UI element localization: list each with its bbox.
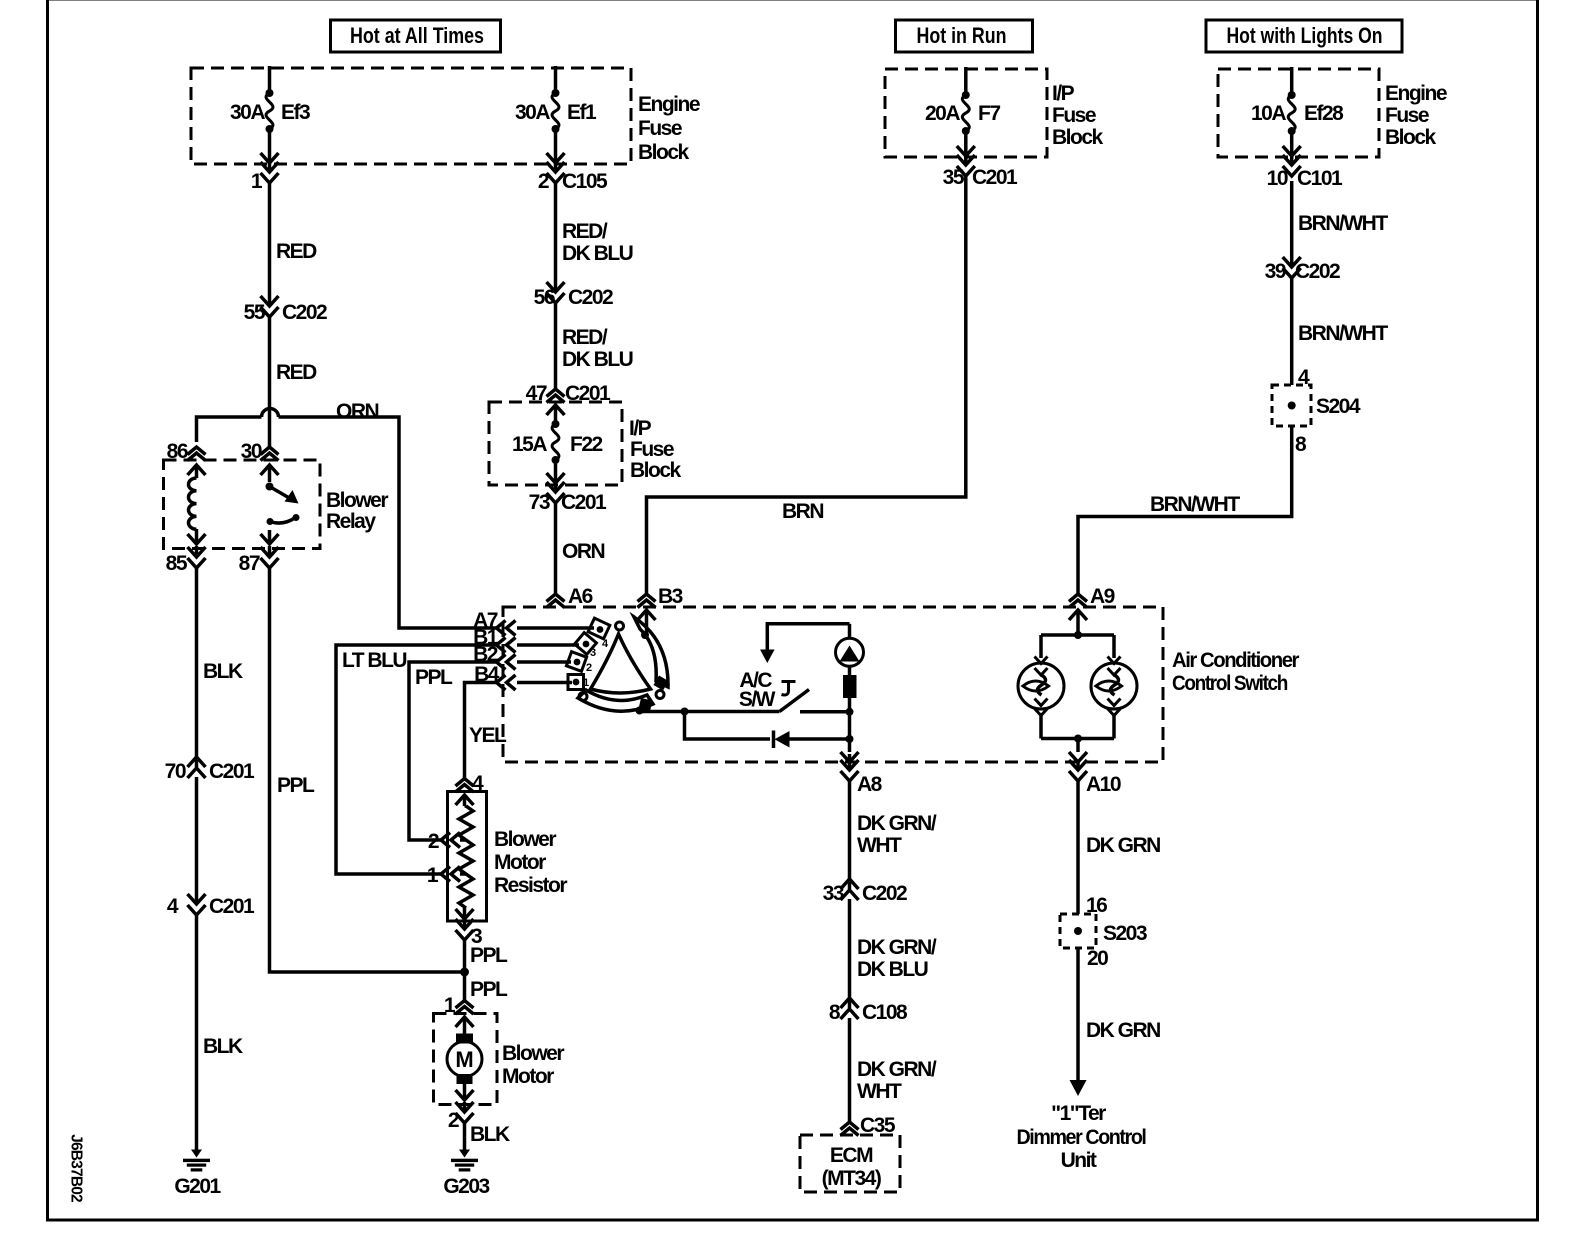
wire DK GRN/WHT (8 C108 to C35) (850, 1018, 937, 1122)
wire BLK (4 C201 to G201) (197, 913, 243, 1151)
svg-text:2: 2 (586, 662, 592, 674)
svg-text:WHT: WHT (857, 1080, 902, 1103)
svg-text:G201: G201 (174, 1175, 221, 1198)
svg-text:PPL: PPL (277, 774, 315, 797)
svg-text:55: 55 (244, 301, 266, 324)
connector 39 C202 (1265, 257, 1340, 283)
fuse Ef28 10A (1251, 67, 1344, 156)
svg-text:2: 2 (428, 830, 439, 853)
svg-text:S203: S203 (1103, 922, 1147, 945)
svg-text:F7: F7 (978, 102, 1000, 125)
svg-text:Hot at All Times: Hot at All Times (350, 23, 484, 48)
connector 73 C201 (529, 482, 607, 514)
engine fuse block (right) dashed box (1218, 69, 1447, 157)
svg-text:C105: C105 (562, 170, 608, 193)
wire DK GRN/DK BLU (33 C202 to 8 C108) (850, 899, 937, 1008)
node (PPL junction) (460, 968, 508, 1002)
wire DK GRN (A10 to S203) (1078, 779, 1160, 917)
svg-text:A10: A10 (1086, 773, 1121, 796)
wire to A8 (841, 739, 859, 762)
svg-text:B3: B3 (658, 585, 683, 608)
ground G201 (174, 1150, 221, 1199)
splice S203 (1060, 914, 1147, 970)
wire RED (55 C202 to relay) (270, 315, 318, 447)
svg-text:70: 70 (165, 760, 186, 783)
wire PPL (pin 3 to junction) (465, 938, 509, 1001)
wire PPL (87 to blower motor junction) (270, 566, 465, 972)
wire RED/DK BLU (56 C202 to 47 C201) (556, 301, 633, 389)
svg-text:C201: C201 (561, 491, 607, 514)
wire (rotary to A/C switch) (640, 708, 780, 716)
svg-text:2: 2 (538, 170, 549, 193)
svg-text:Blower: Blower (502, 1042, 564, 1065)
svg-text:RED: RED (276, 240, 317, 263)
fuse F7 20A (925, 67, 1000, 156)
illumination lamp (right) (1091, 635, 1137, 739)
svg-text:Hot with Lights On: Hot with Lights On (1227, 23, 1383, 48)
svg-text:Control Switch: Control Switch (1172, 672, 1288, 695)
svg-text:C202: C202 (282, 301, 327, 324)
connector 10 C101 (1267, 155, 1343, 190)
svg-text:BRN/WHT: BRN/WHT (1298, 212, 1388, 235)
svg-text:PPL: PPL (415, 666, 453, 689)
svg-text:Air Conditioner: Air Conditioner (1172, 649, 1299, 672)
svg-text:C201: C201 (972, 166, 1018, 189)
wire ORN (73 C201 to A6) (556, 501, 605, 594)
svg-text:30A: 30A (515, 101, 550, 124)
connector A9 (1069, 585, 1115, 608)
connector 47 C201 (526, 382, 611, 405)
svg-text:4: 4 (602, 638, 609, 650)
svg-text:C202: C202 (862, 882, 907, 905)
svg-text:Block: Block (1385, 126, 1437, 149)
motor pin 1 connector (444, 994, 474, 1017)
wire YEL (B4 to resistor pin4) (465, 683, 508, 779)
connector 35 C201 (943, 155, 1018, 189)
svg-text:DK BLU: DK BLU (857, 958, 928, 981)
svg-text:C201: C201 (209, 895, 255, 918)
illumination lamp (left) (1018, 635, 1064, 739)
svg-text:4: 4 (167, 895, 179, 918)
svg-text:A6: A6 (568, 585, 593, 608)
engine fuse block (left) dashed box (191, 68, 700, 164)
svg-text:(MT34): (MT34) (822, 1167, 881, 1190)
svg-text:Engine: Engine (638, 93, 700, 116)
svg-text:Block: Block (630, 459, 682, 482)
connector 8 C108 (829, 998, 908, 1024)
svg-text:35: 35 (943, 166, 965, 189)
svg-text:2: 2 (448, 1109, 459, 1132)
svg-text:Relay: Relay (326, 510, 376, 533)
wire BRN/WHT (C101 to 39 C202) (1292, 181, 1389, 266)
svg-text:LT BLU: LT BLU (342, 649, 406, 672)
svg-text:Block: Block (638, 141, 690, 164)
plate code J6B37B02 (68, 1134, 85, 1202)
svg-text:Unit: Unit (1061, 1149, 1097, 1172)
svg-text:87: 87 (239, 552, 260, 575)
svg-text:10A: 10A (1251, 102, 1286, 125)
relay pin 30 connector (241, 440, 279, 463)
connector B3 (638, 585, 683, 608)
svg-text:BLK: BLK (203, 660, 243, 683)
connector 33 C202 (823, 879, 907, 905)
resistor pin 3 connector (456, 919, 483, 948)
relay switch contacts (261, 465, 300, 544)
wire BRN (35 C201 to B3) (647, 174, 966, 594)
svg-text:33: 33 (823, 882, 844, 905)
connector A8 (841, 760, 883, 796)
svg-text:Fuse: Fuse (630, 438, 674, 461)
connector A6 (547, 585, 593, 608)
wire ORN (relay branch: pin86 to A7) with hop over RED (197, 400, 497, 628)
motor pin 2 connector (448, 1102, 474, 1132)
svg-text:ECM: ECM (830, 1144, 873, 1167)
connector B2 (473, 643, 515, 670)
I/P fuse block (top) dashed box (885, 69, 1104, 157)
svg-text:I/P: I/P (629, 417, 652, 440)
svg-text:RED/: RED/ (562, 220, 608, 243)
svg-text:15A: 15A (512, 433, 547, 456)
wire DK GRN/WHT (A8 to 33 C202) (850, 779, 937, 889)
resistor pin 4 connector (456, 772, 485, 795)
svg-text:56: 56 (534, 286, 555, 309)
fuse F22 15A (512, 405, 603, 483)
wire (70 C201 to 4 C201) (195, 777, 199, 903)
ECM (MT34) dashed box (800, 1135, 900, 1192)
svg-text:BRN/WHT: BRN/WHT (1150, 493, 1240, 516)
svg-text:Ef3: Ef3 (281, 101, 310, 124)
svg-text:Motor: Motor (502, 1065, 554, 1088)
svg-text:DK GRN/: DK GRN/ (857, 812, 937, 835)
ground G203 (443, 1150, 489, 1199)
svg-text:F22: F22 (570, 433, 603, 456)
wire BLK (motor to G203) (465, 1121, 510, 1151)
svg-text:RED/: RED/ (562, 326, 608, 349)
blower relay dashed box (164, 460, 389, 549)
svg-text:BRN: BRN (782, 500, 823, 523)
svg-text:85: 85 (166, 552, 188, 575)
connector B4 (474, 663, 515, 690)
fuse Ef1 30A (515, 66, 597, 163)
svg-text:I/P: I/P (1052, 82, 1075, 105)
connector 2 C105 (538, 162, 608, 193)
svg-text:Dimmer Control: Dimmer Control (1017, 1126, 1147, 1149)
A/C S/W switch (739, 669, 848, 712)
wire LT BLU (B1 to resistor pin1) (336, 645, 497, 874)
svg-text:Block: Block (1052, 126, 1104, 149)
svg-text:Hot in Run: Hot in Run (917, 23, 1007, 48)
svg-text:RED: RED (276, 361, 317, 384)
connector A10 (1069, 760, 1121, 796)
svg-text:Fuse: Fuse (1385, 104, 1429, 127)
svg-text:C202: C202 (1295, 260, 1340, 283)
svg-text:S204: S204 (1316, 395, 1361, 418)
svg-text:C201: C201 (209, 760, 255, 783)
svg-text:20: 20 (1087, 947, 1108, 970)
svg-text:DK GRN: DK GRN (1086, 834, 1160, 857)
branch arrow (to compressor signal) (760, 624, 850, 663)
svg-text:DK GRN/: DK GRN/ (857, 1058, 937, 1081)
svg-text:BRN/WHT: BRN/WHT (1298, 322, 1388, 345)
blower motor dashed box (434, 1014, 565, 1105)
svg-text:Engine: Engine (1385, 82, 1447, 105)
svg-text:20A: 20A (925, 102, 960, 125)
svg-text:PPL: PPL (470, 944, 508, 967)
resistor element (456, 795, 474, 919)
node (switch output) (846, 708, 854, 739)
svg-text:M: M (455, 1047, 473, 1072)
svg-text:C101: C101 (1297, 167, 1343, 190)
connector 4 C201 (167, 894, 255, 918)
svg-text:A9: A9 (1090, 585, 1115, 608)
thermal protector (circle with triangle) (836, 624, 864, 667)
wire BLK (85 to 70 C201) (197, 566, 243, 767)
wire RED/DK BLU (Ef1 to 56 C202) (556, 181, 633, 291)
wire B3 to rotary switch arc (638, 610, 656, 635)
header box: Hot with Lights On (1206, 20, 1402, 52)
svg-text:8: 8 (829, 1001, 841, 1024)
svg-text:G203: G203 (443, 1175, 489, 1198)
svg-text:DK GRN: DK GRN (1086, 1019, 1160, 1042)
svg-text:Fuse: Fuse (638, 117, 682, 140)
connector 70 C201 (165, 757, 255, 783)
relay pin 87 connector (239, 546, 279, 575)
connector C35 (841, 1114, 896, 1137)
svg-text:Ef1: Ef1 (567, 101, 597, 124)
svg-text:Blower: Blower (326, 489, 388, 512)
svg-text:S/W: S/W (739, 688, 776, 711)
I/P fuse block (middle) dashed box (489, 402, 682, 485)
svg-text:10: 10 (1267, 167, 1288, 190)
wire RED (Ef3 to 55 C202) (270, 181, 318, 305)
lamp branch (A9) (1041, 610, 1114, 639)
connector 56 C202 (534, 282, 613, 309)
air conditioner control switch dashed box (503, 607, 1299, 762)
connector A7 (473, 609, 515, 636)
diode branch (685, 712, 854, 749)
relay coil (188, 465, 206, 544)
svg-text:C108: C108 (862, 1001, 908, 1024)
svg-text:WHT: WHT (857, 834, 902, 857)
svg-text:Resistor: Resistor (494, 874, 567, 897)
svg-text:YEL: YEL (469, 724, 507, 747)
svg-text:J6B37B02: J6B37B02 (68, 1134, 85, 1202)
wire PPL (B2 to resistor pin2) (409, 662, 497, 840)
connector 55 C202 (244, 296, 327, 324)
svg-text:1: 1 (583, 677, 589, 689)
svg-text:ORN: ORN (336, 400, 379, 423)
svg-text:73: 73 (529, 491, 550, 514)
resistor (filled) in A/C switch (843, 666, 857, 712)
splice S204 (1272, 385, 1361, 456)
header box: Hot at All Times (331, 20, 501, 52)
svg-text:86: 86 (167, 440, 188, 463)
wire BRN/WHT (39 C202 to S204) (1292, 276, 1389, 389)
wire DK GRN (S203 to dimmer control) (1070, 948, 1161, 1096)
svg-text:8: 8 (1295, 433, 1307, 456)
relay pin 86 connector (167, 440, 206, 463)
svg-text:39: 39 (1265, 260, 1286, 283)
blower motor M (447, 1017, 482, 1100)
connector 1 (below Ef3) (251, 162, 279, 193)
wire BRN/WHT (S204 to A9) (1078, 426, 1292, 594)
svg-text:Ef28: Ef28 (1304, 102, 1344, 125)
svg-text:ORN: ORN (562, 540, 605, 563)
svg-text:C202: C202 (568, 286, 613, 309)
rotary fan switch (517, 617, 669, 715)
svg-text:30: 30 (241, 440, 262, 463)
svg-text:A8: A8 (857, 773, 883, 796)
svg-text:Blower: Blower (494, 828, 556, 851)
connector B1 (473, 626, 515, 653)
svg-text:Motor: Motor (494, 851, 546, 874)
fuse Ef3 30A (230, 66, 310, 163)
svg-text:PPL: PPL (470, 978, 508, 1001)
resistor pin 1 connector (427, 864, 466, 887)
svg-text:DK GRN/: DK GRN/ (857, 936, 937, 959)
lamp branch join to A10 (1041, 735, 1114, 763)
blower motor resistor box (448, 792, 568, 922)
relay pin 85 connector (166, 546, 206, 575)
svg-text:3: 3 (590, 647, 596, 659)
resistor pin 2 connector (428, 830, 466, 853)
dimmer control unit label (1017, 1102, 1147, 1172)
svg-text:BLK: BLK (470, 1123, 510, 1146)
svg-text:30A: 30A (230, 101, 265, 124)
svg-text:"1"Ter: "1"Ter (1051, 1102, 1106, 1125)
svg-text:DK BLU: DK BLU (562, 348, 633, 371)
header box: Hot in Run (896, 20, 1033, 52)
svg-text:DK BLU: DK BLU (562, 242, 633, 265)
svg-text:BLK: BLK (203, 1035, 243, 1058)
svg-text:Fuse: Fuse (1052, 104, 1096, 127)
